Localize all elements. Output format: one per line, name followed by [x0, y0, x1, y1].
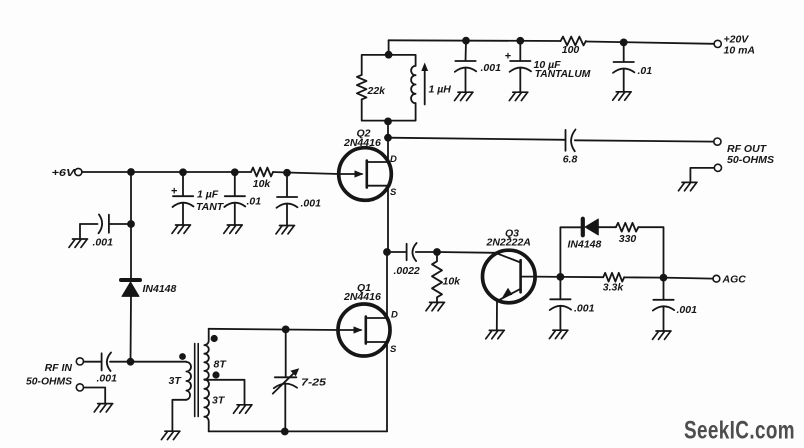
- resistor R3 100: [561, 37, 586, 56]
- ground RF IN: [94, 404, 113, 412]
- svg-text:.001: .001: [574, 303, 595, 315]
- svg-text:.0022: .0022: [394, 265, 420, 277]
- svg-text:7-25: 7-25: [301, 377, 326, 389]
- svg-text:6.8: 6.8: [563, 154, 578, 166]
- svg-text:2N4416: 2N4416: [343, 137, 381, 149]
- capacitor C12 .001: [550, 277, 595, 330]
- resistor R2 22k: [357, 75, 386, 99]
- svg-text:1 µF: 1 µF: [197, 189, 219, 201]
- node dot junction left-cap: [127, 220, 135, 228]
- ground transformer primary: [161, 431, 180, 439]
- capacitor C11 .0022: [387, 243, 437, 277]
- svg-text:.001: .001: [677, 304, 698, 316]
- capacitor C1 1uF TANT: [171, 172, 225, 225]
- node dot collector-A: [557, 273, 565, 281]
- node dot rail-D: [283, 169, 291, 177]
- node dot tank top: [385, 51, 393, 59]
- svg-text:+: +: [505, 51, 511, 63]
- node dot tank bottom: [384, 118, 392, 126]
- ground under C8: [509, 92, 528, 100]
- wire tank top to rail: [388, 40, 390, 54]
- svg-text:.001: .001: [301, 198, 322, 210]
- wire 10k to Q2 gate: [273, 172, 339, 174]
- ground under C3: [276, 226, 295, 234]
- wire primary bottom to ground: [172, 400, 186, 431]
- svg-text:D: D: [390, 154, 397, 165]
- capacitor C4 .001 shunt: [80, 215, 131, 249]
- node dot secondary tap phasing: [212, 371, 219, 378]
- svg-text:D: D: [391, 310, 398, 321]
- resistor R6 330: [616, 223, 638, 245]
- terminal AGC: [713, 275, 720, 282]
- node dot bottom rail: [281, 428, 289, 436]
- wire +6V rail: [82, 171, 251, 173]
- wire +20V rail: [389, 39, 561, 42]
- wire RF IN return to ground: [84, 388, 106, 404]
- svg-text:.001: .001: [481, 62, 502, 74]
- wire Q2 drain up to tank: [387, 121, 389, 162]
- svg-text:TANTALUM: TANTALUM: [535, 68, 591, 80]
- svg-text:3T: 3T: [169, 375, 183, 387]
- wire Q2 source down to junction: [387, 186, 389, 252]
- wire AGC lead: [664, 278, 713, 279]
- resistor R5 3.3k: [603, 273, 625, 294]
- resistor R4 10k: [432, 252, 461, 302]
- svg-text:RF IN: RF IN: [45, 362, 73, 374]
- node dot interstage junction: [383, 248, 391, 256]
- node dot primary phasing: [179, 353, 186, 360]
- ground under R4: [426, 302, 445, 310]
- ground RF OUT return: [679, 182, 698, 190]
- terminal RF OUT: [714, 138, 721, 145]
- transformer T1 secondary winding 3T: [204, 380, 209, 432]
- svg-text:+: +: [171, 186, 177, 198]
- svg-text:3.3k: 3.3k: [603, 282, 625, 294]
- svg-text:8T: 8T: [214, 359, 228, 371]
- svg-text:100: 100: [562, 44, 580, 56]
- node dot varcap top: [282, 326, 290, 334]
- svg-text:10k: 10k: [253, 178, 272, 190]
- inductor L1 1uH: [411, 63, 451, 105]
- wire Q1 drain up to .0022 junction: [386, 252, 388, 318]
- node dot RF OUT junction: [384, 134, 392, 142]
- svg-text:22k: 22k: [367, 85, 387, 97]
- wire collector to 3.3k: [560, 276, 603, 278]
- variable capacitor C6 7-25: [273, 329, 326, 431]
- ground center tap: [234, 405, 253, 413]
- wire diode to 330: [598, 226, 616, 228]
- wire tank loop: [362, 55, 416, 121]
- svg-text:S: S: [390, 187, 397, 198]
- transformer T1 primary winding 3T: [186, 362, 191, 400]
- wire junction to diode: [130, 224, 132, 278]
- svg-text:IN4148: IN4148: [143, 283, 177, 295]
- svg-text:S: S: [390, 344, 397, 355]
- capacitor C3 .001: [277, 173, 322, 226]
- node dot rail cap1: [462, 37, 470, 45]
- svg-text:IN4148: IN4148: [568, 239, 602, 251]
- wire Q3 collector: [535, 276, 560, 278]
- svg-text:3T: 3T: [212, 395, 226, 407]
- diode D2 1N4148: [568, 219, 602, 251]
- capacitor C5 .001 RF IN: [84, 353, 131, 385]
- wire Q3 emitter to ground: [496, 301, 498, 330]
- wire RF OUT left segment: [388, 138, 566, 140]
- node dot RF-IN junction: [127, 358, 135, 366]
- wire bottom rail: [209, 430, 387, 432]
- svg-text:50-OHMS: 50-OHMS: [26, 376, 72, 388]
- capacitor C7 .001: [455, 41, 501, 92]
- node dot secondary top phasing: [211, 335, 218, 342]
- transformer T1 secondary winding 8T: [204, 329, 209, 380]
- svg-text:SeekIC.com: SeekIC.com: [684, 417, 795, 445]
- wire RF OUT return to ground: [690, 168, 714, 182]
- diode D1 1N4148: [121, 280, 177, 296]
- node dot rail cap3: [620, 39, 628, 47]
- terminal +20V: [714, 40, 721, 47]
- ground Q3 emitter: [486, 330, 505, 338]
- capacitor C10 6.8: [563, 130, 578, 166]
- wire feedback left riser: [560, 227, 580, 277]
- node dot rail cap2: [516, 37, 524, 45]
- wire C4 to ground: [79, 224, 81, 239]
- svg-text:10 mA: 10 mA: [724, 45, 756, 57]
- wire left branch down from rail: [130, 172, 132, 224]
- capacitor C8 10uF TANTALUM: [505, 41, 591, 92]
- terminal +6V: [75, 168, 82, 175]
- svg-text:50-OHMS: 50-OHMS: [727, 154, 774, 166]
- wire 3.3k to AGC node: [624, 276, 663, 278]
- ground under C9: [613, 92, 632, 100]
- capacitor C2 .01: [224, 172, 261, 225]
- svg-text:.01: .01: [638, 65, 653, 77]
- svg-text:.01: .01: [247, 196, 262, 208]
- ground under C13: [653, 331, 672, 339]
- capacitor C13 .001: [653, 278, 697, 331]
- ground under C1: [172, 225, 191, 233]
- svg-text:2N4416: 2N4416: [343, 291, 381, 303]
- svg-text:AGC: AGC: [722, 274, 747, 286]
- wire Q1 source down to bottom rail: [386, 342, 388, 431]
- ground under C12: [549, 330, 568, 338]
- wire Q3 base: [437, 251, 495, 254]
- terminal RF IN return: [76, 384, 83, 391]
- transformer T1 core: [195, 344, 199, 417]
- wire secondary top to Q1 gate: [209, 329, 338, 330]
- wire diode to RF IN junction: [130, 296, 133, 361]
- transistor Q1 2N4416 JFET: [338, 282, 398, 356]
- capacitor C9 .01: [613, 42, 652, 91]
- wire secondary center tap to ground: [204, 380, 244, 405]
- svg-text:.001: .001: [93, 237, 114, 249]
- node dot Q3 base junction: [433, 248, 441, 256]
- svg-text:.001: .001: [97, 373, 118, 385]
- resistor R1 10k: [251, 168, 273, 177]
- ground under C2: [224, 225, 243, 233]
- svg-text:1 µH: 1 µH: [429, 84, 452, 96]
- transistor Q2 2N4416 JFET: [339, 128, 397, 201]
- wire 330 to right riser: [638, 227, 663, 277]
- node dot rail-B: [179, 168, 187, 176]
- svg-text:2N2222A: 2N2222A: [486, 237, 531, 249]
- node dot rail-C: [231, 168, 239, 176]
- svg-text:TANT: TANT: [196, 201, 225, 213]
- ground under C7: [455, 92, 474, 100]
- svg-text:10k: 10k: [443, 276, 462, 288]
- terminal RF IN hot: [76, 358, 83, 365]
- wire RF IN junction to transformer primary: [131, 361, 187, 363]
- node dot collector-B: [660, 274, 668, 282]
- ground under C4: [69, 239, 88, 247]
- node dot rail-A: [127, 168, 135, 176]
- wire rail right segment: [586, 42, 714, 44]
- wire RF OUT right segment: [575, 140, 714, 141]
- terminal RF OUT return: [714, 164, 721, 171]
- svg-text:+6V: +6V: [52, 167, 76, 179]
- svg-text:330: 330: [619, 233, 637, 245]
- transistor Q3 2N2222A: [483, 228, 536, 303]
